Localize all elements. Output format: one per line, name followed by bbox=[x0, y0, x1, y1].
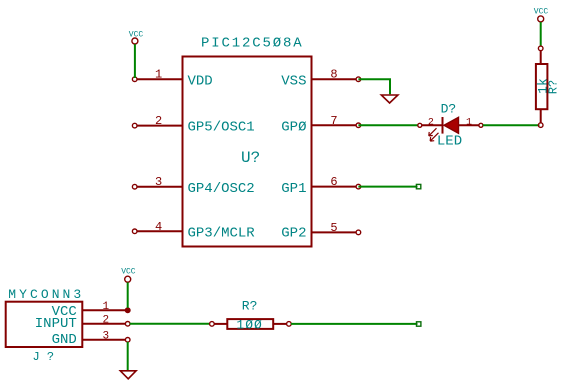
svg-text:6: 6 bbox=[330, 175, 337, 189]
pin number 1 (J?) bbox=[102, 301, 109, 313]
svg-text:1: 1 bbox=[155, 68, 162, 82]
pin 1 VDD of U? bbox=[132, 77, 182, 82]
ground (bottom) bbox=[120, 371, 136, 379]
svg-text:MYCONN3: MYCONN3 bbox=[8, 287, 84, 302]
svg-text:5: 5 bbox=[330, 221, 337, 235]
pin name GP0 bbox=[281, 120, 306, 136]
pin 4 GP3/MCLR of U? bbox=[132, 229, 182, 234]
pin 7 GP0 of U? bbox=[312, 123, 361, 128]
pin number 5 bbox=[330, 221, 337, 235]
resistor R2 (R? 100 horizontal) bbox=[210, 319, 292, 329]
wire VCC to pin 1 bbox=[134, 44, 136, 78]
svg-text:2: 2 bbox=[102, 314, 109, 326]
pin name GP4/OSC2 bbox=[188, 181, 255, 197]
svg-text:INPUT: INPUT bbox=[35, 316, 77, 332]
op-amp U1 body: IC U? PIC12C508A rectangle bbox=[183, 57, 312, 247]
pin 1 VCC of J? bbox=[82, 308, 130, 313]
svg-text:7: 7 bbox=[330, 114, 337, 128]
svg-text:R?: R? bbox=[242, 298, 258, 313]
svg-text:1ØØ: 1ØØ bbox=[236, 317, 262, 332]
svg-text:GP4/OSC2: GP4/OSC2 bbox=[188, 181, 255, 197]
wire LED anode to resistor R? 1k bbox=[483, 124, 540, 126]
svg-text:8: 8 bbox=[330, 68, 337, 82]
pin 2 GP5/OSC1 of U? bbox=[132, 123, 182, 128]
value label 1k bbox=[536, 78, 551, 94]
svg-text:U?: U? bbox=[241, 149, 260, 167]
pin name GND (J?) bbox=[52, 332, 77, 348]
power symbol VCC (top right) bbox=[534, 8, 549, 22]
svg-text:D?: D? bbox=[441, 102, 457, 117]
wire VCC to pin 1 of J? bbox=[127, 282, 129, 309]
pin name GP3/MCLR bbox=[188, 225, 256, 241]
svg-text:PIC12C5Ø8A: PIC12C5Ø8A bbox=[201, 36, 304, 52]
wire pin 2 of J? to resistor R? 100 bbox=[130, 323, 210, 325]
pin name GP5/OSC1 bbox=[188, 120, 255, 136]
pin number 3 bbox=[155, 175, 162, 189]
pin number 4 bbox=[155, 220, 162, 234]
svg-text:1: 1 bbox=[466, 117, 472, 128]
wire pin 7 to LED cathode bbox=[358, 124, 418, 126]
svg-text:3: 3 bbox=[155, 175, 162, 189]
pin number 1 bbox=[155, 68, 162, 82]
svg-text:GND: GND bbox=[52, 332, 77, 348]
wire pin 3 of J? to ground bbox=[127, 342, 129, 370]
svg-text:4: 4 bbox=[155, 220, 162, 234]
pin name VDD bbox=[188, 73, 213, 89]
pin name GP1 bbox=[281, 181, 306, 197]
svg-text:VSS: VSS bbox=[281, 73, 306, 89]
pin 8 VSS of U? bbox=[312, 77, 361, 82]
pin 3 GND of J? bbox=[82, 338, 130, 343]
value label 100 bbox=[236, 317, 262, 332]
svg-text:GP2: GP2 bbox=[281, 225, 306, 241]
pin number 2 (LED cathode) bbox=[428, 117, 434, 128]
value label MYCONN3 bbox=[8, 287, 84, 302]
value label PIC12C508A bbox=[201, 36, 304, 52]
reference designator R? (100) bbox=[242, 298, 258, 313]
pin number 1 (LED anode) bbox=[466, 117, 472, 128]
ground (near VSS) bbox=[381, 95, 398, 103]
svg-text:VDD: VDD bbox=[188, 73, 213, 89]
pin number 7 bbox=[330, 114, 337, 128]
pin number 8 bbox=[330, 68, 337, 82]
pin name GP2 bbox=[281, 225, 306, 241]
reference designator R? (1k) bbox=[547, 80, 561, 94]
wire resistor R? 100 dangling end bbox=[291, 322, 421, 326]
pin name VCC (J?) bbox=[52, 304, 77, 320]
power symbol VCC (bottom) bbox=[121, 268, 136, 283]
wire VCC to resistor R? 1k bbox=[540, 22, 542, 46]
value label LED bbox=[437, 134, 462, 150]
svg-text:GP5/OSC1: GP5/OSC1 bbox=[188, 120, 255, 136]
reference designator D? bbox=[441, 102, 457, 117]
reference designator U? bbox=[241, 149, 260, 167]
svg-text:R?: R? bbox=[547, 80, 561, 94]
junction at pin 1 of J? bbox=[125, 308, 130, 313]
svg-text:J ?: J ? bbox=[33, 350, 55, 364]
pin name INPUT (J?) bbox=[35, 316, 77, 332]
svg-text:1: 1 bbox=[102, 301, 109, 313]
pin 2 INPUT of J? bbox=[82, 322, 130, 327]
svg-text:GP1: GP1 bbox=[281, 181, 306, 197]
svg-text:2: 2 bbox=[155, 114, 162, 128]
pin 5 GP2 of U? bbox=[312, 230, 361, 235]
resistor R1 (R? 1k vertical) bbox=[536, 46, 548, 127]
pin number 3 (J?) bbox=[102, 330, 109, 342]
svg-text:2: 2 bbox=[428, 117, 434, 128]
wire pin 8 to ground bbox=[358, 79, 390, 94]
svg-text:VCC: VCC bbox=[121, 268, 136, 277]
LED D? bbox=[418, 117, 483, 141]
pin number 2 bbox=[155, 114, 162, 128]
pin name VSS bbox=[281, 73, 306, 89]
svg-text:GP3/MCLR: GP3/MCLR bbox=[188, 225, 256, 241]
pin number 2 (J?) bbox=[102, 314, 109, 326]
wire pin 6 dangling bbox=[358, 184, 420, 188]
svg-text:LED: LED bbox=[437, 134, 462, 150]
pin 6 GP1 of U? bbox=[312, 184, 361, 189]
power symbol VCC (top left) bbox=[129, 31, 144, 44]
reference designator J ? bbox=[33, 350, 55, 364]
pin number 6 bbox=[330, 175, 337, 189]
connector J? MYCONN3 body bbox=[6, 302, 83, 347]
svg-text:GPØ: GPØ bbox=[281, 120, 306, 136]
pin 3 GP4/OSC2 of U? bbox=[132, 184, 182, 189]
svg-text:3: 3 bbox=[102, 330, 109, 342]
